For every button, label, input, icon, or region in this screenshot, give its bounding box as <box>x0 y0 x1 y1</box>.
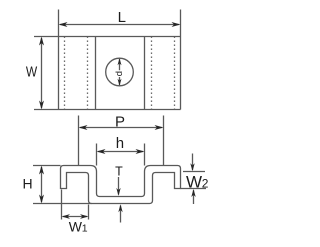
svg-text:T: T <box>115 165 123 179</box>
top view right edge with L extension <box>180 10 182 110</box>
dimension P extension lines <box>79 116 164 166</box>
dimension h extension lines <box>97 144 145 166</box>
dimension h <box>97 149 145 154</box>
bend line solid right <box>144 37 146 110</box>
dimension P <box>79 125 164 130</box>
section outline <box>61 166 181 204</box>
dimension W1 extension lines <box>62 190 89 220</box>
dimension L <box>59 22 181 27</box>
svg-text:h: h <box>116 135 124 152</box>
dimension W <box>39 37 44 110</box>
dimension W2 extension lines <box>181 172 207 189</box>
label W2 <box>186 172 209 191</box>
dimension W2 lower arrow <box>191 189 195 204</box>
svg-text:L: L <box>118 9 126 26</box>
label W1 <box>69 219 88 235</box>
dimension T upper arrow <box>116 177 120 196</box>
dimension d arrow <box>118 58 122 85</box>
hidden bend line mid right <box>151 37 153 110</box>
dimension W1 <box>62 214 89 219</box>
svg-text:2: 2 <box>202 177 209 191</box>
label d <box>114 70 125 77</box>
svg-text:P: P <box>115 114 125 131</box>
hole circle <box>106 58 134 86</box>
dimension W2 upper arrow <box>190 154 194 172</box>
svg-text:W: W <box>26 63 37 80</box>
svg-text:1: 1 <box>82 223 88 235</box>
dimension H extension lines <box>33 166 92 204</box>
hidden bend line far left <box>64 37 66 110</box>
svg-text:W: W <box>69 219 83 235</box>
top view top edge with W extension <box>34 36 181 38</box>
hidden bend line mid left <box>87 37 89 110</box>
svg-text:W: W <box>186 172 202 191</box>
dimension T lower arrow <box>118 204 122 222</box>
top view bottom edge with W extension <box>34 109 181 111</box>
hidden bend line far right <box>174 37 176 110</box>
bend line solid left <box>95 37 97 110</box>
svg-text:H: H <box>22 175 32 191</box>
dimension H <box>39 166 44 204</box>
svg-text:d: d <box>114 71 125 76</box>
top view left edge with L extension <box>58 10 60 110</box>
